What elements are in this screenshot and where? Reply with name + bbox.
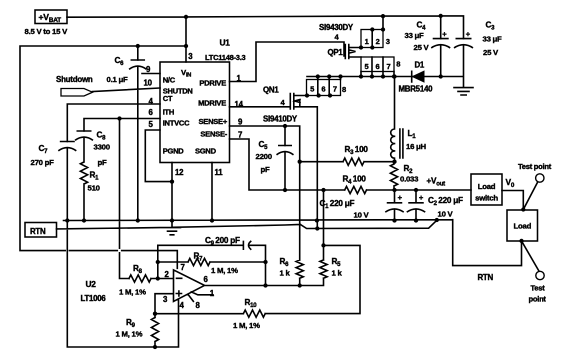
svg-text:14: 14 bbox=[235, 100, 244, 109]
svg-text:RTN: RTN bbox=[478, 273, 494, 282]
svg-text:Test point: Test point bbox=[518, 162, 552, 171]
svg-text:LT1006: LT1006 bbox=[81, 294, 107, 303]
svg-text:33 μF: 33 μF bbox=[483, 35, 503, 44]
svg-text:1 M, 1%: 1 M, 1% bbox=[116, 330, 143, 339]
svg-text:D1: D1 bbox=[415, 61, 425, 70]
svg-text:5: 5 bbox=[365, 62, 369, 71]
svg-text:U1: U1 bbox=[220, 38, 231, 48]
svg-text:switch: switch bbox=[475, 194, 498, 203]
svg-text:Shutdown: Shutdown bbox=[56, 75, 93, 84]
svg-text:12: 12 bbox=[175, 168, 184, 177]
svg-text:2200: 2200 bbox=[256, 152, 272, 161]
svg-text:1 k: 1 k bbox=[332, 269, 343, 278]
svg-text:11: 11 bbox=[215, 168, 224, 177]
svg-text:3: 3 bbox=[386, 37, 390, 46]
svg-text:MDRIVE: MDRIVE bbox=[198, 99, 226, 108]
svg-text:LTC1148-3.3: LTC1148-3.3 bbox=[205, 53, 246, 62]
svg-text:10 V: 10 V bbox=[438, 210, 454, 219]
svg-text:N/C: N/C bbox=[163, 75, 176, 84]
svg-text:8.5 V to 15 V: 8.5 V to 15 V bbox=[25, 27, 69, 36]
svg-text:5: 5 bbox=[310, 85, 314, 94]
svg-text:QN1: QN1 bbox=[263, 86, 279, 95]
svg-text:1 M, 1%: 1 M, 1% bbox=[211, 266, 238, 275]
svg-text:8: 8 bbox=[342, 85, 346, 94]
svg-text:25 V: 25 V bbox=[483, 48, 499, 57]
svg-text:10 V: 10 V bbox=[354, 211, 370, 220]
svg-text:SENSE+: SENSE+ bbox=[199, 117, 228, 126]
svg-text:0.033: 0.033 bbox=[400, 175, 419, 184]
svg-text:pF: pF bbox=[98, 158, 107, 167]
svg-text:6: 6 bbox=[321, 85, 325, 94]
svg-text:10: 10 bbox=[144, 78, 153, 87]
svg-text:1 k: 1 k bbox=[280, 269, 291, 278]
svg-text:Load: Load bbox=[478, 182, 496, 191]
svg-text:7: 7 bbox=[333, 85, 337, 94]
svg-text:25 V: 25 V bbox=[414, 43, 430, 52]
svg-text:SI9430DY: SI9430DY bbox=[319, 23, 354, 32]
svg-text:SI9410DY: SI9410DY bbox=[263, 115, 298, 124]
svg-text:6: 6 bbox=[376, 62, 380, 71]
svg-text:PDRIVE: PDRIVE bbox=[199, 79, 226, 88]
svg-text:point: point bbox=[529, 295, 547, 304]
svg-text:RTN: RTN bbox=[30, 227, 46, 236]
svg-text:INTVCC: INTVCC bbox=[163, 119, 190, 128]
svg-text:8: 8 bbox=[396, 60, 400, 69]
svg-text:QP1: QP1 bbox=[328, 48, 344, 57]
svg-text:510: 510 bbox=[88, 184, 100, 193]
svg-text:1 M, 1%: 1 M, 1% bbox=[119, 288, 146, 297]
svg-text:ITH: ITH bbox=[163, 108, 174, 117]
svg-text:0.1 μF: 0.1 μF bbox=[107, 75, 128, 84]
svg-text:16 μH: 16 μH bbox=[406, 142, 427, 151]
svg-text:7: 7 bbox=[387, 62, 391, 71]
svg-text:Test: Test bbox=[531, 284, 546, 293]
svg-text:1: 1 bbox=[365, 37, 369, 46]
svg-text:33 μF: 33 μF bbox=[405, 31, 425, 40]
svg-text:2: 2 bbox=[376, 37, 380, 46]
svg-text:pF: pF bbox=[261, 165, 270, 174]
svg-text:U2: U2 bbox=[86, 279, 97, 289]
svg-text:270 pF: 270 pF bbox=[31, 158, 55, 167]
svg-text:3300: 3300 bbox=[94, 143, 110, 152]
svg-text:CT: CT bbox=[163, 94, 173, 103]
svg-text:PGND: PGND bbox=[163, 146, 185, 155]
svg-text:Load: Load bbox=[514, 222, 532, 231]
svg-text:SENSE-: SENSE- bbox=[200, 129, 227, 138]
svg-text:SGND: SGND bbox=[195, 146, 217, 155]
svg-text:MBR5140: MBR5140 bbox=[399, 85, 434, 94]
svg-text:1 M, 1%: 1 M, 1% bbox=[233, 321, 260, 330]
